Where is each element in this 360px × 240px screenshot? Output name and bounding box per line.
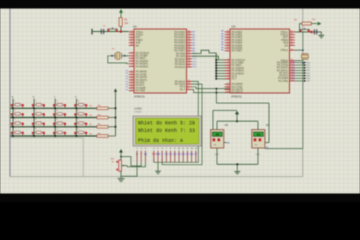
- junction keypad: [54, 107, 56, 109]
- wire U5 top pin: [216, 121, 218, 129]
- svg-text:P3: P3: [126, 84, 128, 86]
- LCD text line 2: [138, 128, 195, 134]
- svg-text:19: 19: [291, 31, 293, 33]
- svg-text:24: 24: [188, 60, 190, 62]
- wire RST net to U1: [92, 31, 129, 33]
- svg-text:D5: D5: [292, 74, 294, 76]
- junction keypad: [33, 107, 35, 109]
- svg-text:12: 12: [227, 88, 229, 90]
- svg-text:P3.7/RD: P3.7/RD: [279, 80, 289, 83]
- svg-text:26: 26: [188, 66, 190, 68]
- display U2: [254, 132, 264, 136]
- junction keypad: [54, 126, 56, 128]
- svg-text:P3: P3: [126, 79, 128, 81]
- U3 right pins: [277, 31, 295, 83]
- wire W1 chip to U2 output: [216, 102, 269, 104]
- svg-text:6: 6: [57, 110, 58, 112]
- resistor R2: [97, 107, 108, 110]
- svg-text:U1: U1: [133, 25, 137, 29]
- svg-text:G: G: [136, 153, 138, 156]
- svg-text:2: 2: [228, 61, 229, 63]
- wire RST U3: [295, 31, 322, 33]
- wire U1 pin28 down to LCD E: [162, 84, 202, 165]
- svg-text:R4: R4: [90, 115, 92, 117]
- bus stubs to U3 with junctions: [216, 59, 230, 61]
- sheet right border: [302, 9, 304, 177]
- svg-text:P3.1: P3.1: [307, 65, 311, 67]
- svg-text:35: 35: [227, 41, 229, 43]
- ground below right reset: [320, 32, 322, 35]
- svg-text:D7: D7: [292, 80, 294, 82]
- wire W2 VCC: [213, 109, 237, 111]
- svg-text:P2.4: P2.4: [193, 64, 197, 66]
- wire U1 pin27 down to LCD RS: [154, 81, 199, 162]
- svg-text:19: 19: [291, 49, 293, 51]
- junction keypad: [12, 117, 14, 119]
- svg-text:33: 33: [227, 47, 229, 49]
- svg-text:1: 1: [14, 101, 15, 103]
- wire crystal loop to XTAL2: [108, 56, 129, 64]
- svg-text:C3: C3: [103, 26, 105, 28]
- svg-text:P3.7: P3.7: [307, 81, 311, 83]
- capacitor C4 plates: [313, 29, 315, 34]
- svg-text:P3.3/INT1: P3.3/INT1: [232, 91, 244, 94]
- button U5 down: [218, 138, 221, 141]
- svg-text:21: 21: [188, 52, 190, 54]
- svg-text:10k: 10k: [98, 133, 101, 135]
- svg-text:15: 15: [131, 84, 133, 86]
- sheet left border: [9, 9, 11, 177]
- svg-text:8: 8: [188, 88, 189, 90]
- svg-text:P0.7/AD7: P0.7/AD7: [232, 50, 243, 53]
- svg-text:36: 36: [188, 39, 190, 41]
- junction keypad: [33, 117, 35, 119]
- wire U2 output to U3: [265, 148, 303, 150]
- display U5: [212, 132, 222, 136]
- keypad row wires: [10, 107, 97, 109]
- resistor R1: [119, 18, 122, 27]
- svg-text:Nhiet do Kenh 5: 28: Nhiet do Kenh 5: 28: [138, 121, 195, 127]
- svg-text:8: 8: [35, 119, 36, 121]
- svg-text:7: 7: [188, 85, 189, 87]
- svg-text:P3.7/RD: P3.7/RD: [136, 90, 146, 93]
- svg-text:7: 7: [228, 75, 229, 77]
- crystal X2: [302, 53, 309, 55]
- svg-text:P2.2: P2.2: [193, 59, 197, 61]
- svg-text:R2: R2: [90, 106, 92, 108]
- svg-text:34: 34: [227, 44, 229, 46]
- node X2 bottom: [302, 62, 304, 64]
- svg-text:P1.5/CEX2: P1.5/CEX2: [136, 65, 149, 68]
- svg-text:#: #: [57, 128, 58, 130]
- svg-text:P3: P3: [126, 73, 128, 75]
- button keypad r1c3: [53, 101, 66, 109]
- svg-text:5: 5: [228, 69, 229, 71]
- svg-text:1k: 1k: [112, 162, 114, 164]
- svg-text:33: 33: [257, 134, 261, 137]
- wire bus vertical: [215, 53, 217, 79]
- svg-text:AT89C51: AT89C51: [134, 94, 145, 98]
- svg-text:LCD1: LCD1: [135, 107, 143, 111]
- U3 left pins: [221, 30, 245, 95]
- button keypad r3c3: [53, 119, 66, 127]
- push button reset left: [107, 28, 118, 30]
- display LCD1 frame: [133, 116, 201, 146]
- wire U5 gnd: [216, 148, 218, 164]
- svg-text:10k: 10k: [98, 124, 101, 126]
- op U1 AT89C51 body: [134, 29, 187, 93]
- svg-text:P3: P3: [126, 76, 128, 78]
- ground rail sensors: [217, 163, 258, 165]
- svg-text:A0: A0: [228, 142, 230, 145]
- wiper arrow RV1: [123, 165, 128, 167]
- svg-text:P1.7: P1.7: [180, 88, 186, 91]
- svg-text:5: 5: [35, 110, 36, 112]
- junction ground rail: [236, 163, 238, 165]
- resistor R4: [97, 116, 108, 119]
- wire bottom run 2: [192, 90, 230, 93]
- schematic sheet background: [0, 9, 360, 194]
- wire U5 output stub: [224, 142, 227, 144]
- LCD pin number row: [136, 148, 197, 150]
- svg-text:P2.3: P2.3: [193, 61, 197, 63]
- svg-text:34: 34: [188, 44, 190, 46]
- wire XTAL2 right: [295, 60, 303, 62]
- svg-text:P1.7: P1.7: [232, 78, 238, 81]
- junction keypad: [75, 126, 77, 128]
- svg-text:27: 27: [188, 80, 190, 82]
- svg-text:11: 11: [131, 73, 133, 75]
- svg-text:19: 19: [131, 31, 133, 33]
- svg-text:22: 22: [188, 55, 190, 57]
- svg-text:38: 38: [227, 33, 229, 35]
- svg-text:4: 4: [14, 110, 15, 112]
- button U2 up: [254, 138, 257, 141]
- svg-text:13: 13: [131, 79, 133, 81]
- svg-text:32: 32: [188, 49, 190, 51]
- svg-text:9: 9: [132, 36, 133, 38]
- button keypad r3c4: [74, 119, 87, 127]
- button U5 up: [213, 138, 216, 141]
- resistor R3 horizontal: [302, 22, 311, 25]
- button keypad r2c1: [11, 110, 24, 118]
- svg-text:12: 12: [131, 76, 133, 78]
- selection box keypad: [10, 137, 83, 139]
- svg-text:16: 16: [131, 87, 133, 89]
- button keypad r1c1: [11, 101, 24, 109]
- power rail bar left: [91, 29, 93, 35]
- svg-text:VE: VE: [144, 153, 148, 156]
- svg-text:25: 25: [188, 63, 190, 65]
- svg-text:P3.5: P3.5: [307, 75, 311, 77]
- junction keypad: [75, 117, 77, 119]
- junction keypad: [33, 126, 35, 128]
- button keypad r3c2: [32, 119, 45, 127]
- svg-text:23: 23: [188, 58, 190, 60]
- wire second link: [192, 56, 219, 60]
- button keypad r1c4: [74, 100, 87, 109]
- svg-text:39: 39: [188, 31, 190, 33]
- button keypad r4c4: [74, 128, 87, 136]
- svg-text:18: 18: [131, 33, 133, 35]
- svg-text:38: 38: [188, 33, 190, 35]
- junction VCC rail: [115, 126, 117, 128]
- svg-text:13: 13: [227, 91, 229, 93]
- junction keypad: [54, 117, 56, 119]
- power symbol VCC right: [318, 22, 322, 26]
- svg-text:37: 37: [188, 36, 190, 38]
- svg-text:39: 39: [227, 31, 229, 33]
- U1 right pins: [174, 31, 196, 92]
- junction VCC rail: [115, 107, 117, 109]
- svg-text:0: 0: [35, 128, 36, 130]
- LCD pin stubs: [137, 151, 196, 163]
- svg-text:10: 10: [227, 83, 229, 85]
- LCD text line 1: [138, 121, 195, 127]
- capacitor C1 plates: [100, 29, 102, 34]
- svg-text:AT89C51: AT89C51: [231, 94, 242, 98]
- svg-text:10k: 10k: [98, 114, 101, 116]
- svg-text:P3: P3: [126, 87, 128, 89]
- wire pot to ground: [120, 171, 122, 178]
- junction sensors VCC: [236, 120, 238, 122]
- sheet bottom border: [10, 176, 303, 178]
- svg-text:6: 6: [228, 72, 229, 74]
- svg-text:R5: R5: [90, 124, 92, 126]
- svg-text:31: 31: [291, 44, 293, 46]
- wire vertical net right: [302, 32, 304, 50]
- ground under RW: [155, 170, 161, 172]
- wire VEE to wiper: [127, 162, 145, 167]
- junction keypad: [12, 135, 14, 137]
- wire VDD to VCC: [121, 157, 141, 166]
- svg-text:17: 17: [131, 89, 133, 91]
- svg-text:P3: P3: [126, 71, 128, 73]
- junction keypad: [33, 135, 35, 137]
- svg-text:3: 3: [132, 57, 133, 59]
- svg-text:Phim da nhan: A: Phim da nhan: A: [138, 138, 183, 144]
- svg-text:8: 8: [228, 77, 229, 79]
- svg-text:Nhiet do Kenh 7: 33: Nhiet do Kenh 7: 33: [138, 128, 195, 134]
- svg-text:33: 33: [255, 145, 257, 147]
- svg-text:P3: P3: [126, 89, 128, 91]
- svg-text:R6: R6: [90, 133, 92, 135]
- node X2 top: [302, 49, 304, 51]
- svg-text:33: 33: [188, 47, 190, 49]
- button keypad r2c2: [32, 110, 45, 118]
- svg-text:4: 4: [132, 60, 133, 62]
- resistor R6: [97, 135, 108, 138]
- svg-text:LM044L: LM044L: [135, 112, 143, 114]
- potentiometer RV1: [119, 160, 122, 171]
- wire bus to sensors vertical: [215, 89, 217, 104]
- svg-text:28: 28: [214, 145, 216, 147]
- power symbol VCC pot: [119, 149, 123, 153]
- svg-text:9: 9: [291, 36, 292, 38]
- button keypad r1c2: [32, 101, 45, 109]
- button keypad r4c1: [11, 128, 24, 136]
- junction keypad: [75, 135, 77, 137]
- svg-text:P2.5/A13: P2.5/A13: [175, 66, 186, 69]
- U3 net label wires with arrows: [295, 62, 304, 64]
- svg-text:14: 14: [131, 81, 133, 83]
- junction node RST right: [310, 31, 313, 34]
- junction node RST: [120, 30, 123, 33]
- junction VCC rail: [115, 117, 117, 119]
- svg-text:31: 31: [131, 44, 133, 46]
- power symbol VCC keypad: [114, 88, 117, 91]
- wire W1 right drop: [268, 103, 270, 143]
- svg-text:D1: D1: [292, 64, 294, 66]
- svg-text:XTAL1: XTAL1: [281, 49, 289, 52]
- resistor R5: [97, 125, 108, 128]
- wire U2 gnd: [257, 148, 259, 164]
- svg-text:P2.5: P2.5: [193, 67, 197, 69]
- LCD text line 4: [138, 138, 183, 144]
- power symbol VCC sensors: [235, 111, 239, 115]
- svg-text:P3: P3: [126, 81, 128, 83]
- svg-text:2: 2: [35, 101, 36, 103]
- svg-text:RW: RW: [156, 153, 161, 156]
- junction keypad: [12, 126, 14, 128]
- sensor U5 LM35 body: [211, 130, 224, 148]
- svg-text:3: 3: [228, 64, 229, 66]
- svg-text:30: 30: [291, 41, 293, 43]
- wire crystal left: [112, 55, 115, 57]
- svg-text:29: 29: [291, 39, 293, 41]
- wire XTAL1 right: [295, 49, 303, 51]
- svg-text:U3: U3: [232, 25, 236, 29]
- crystal X1: [114, 53, 116, 59]
- svg-text:37: 37: [227, 36, 229, 38]
- svg-text:7: 7: [14, 119, 15, 121]
- svg-text:28: 28: [188, 83, 190, 85]
- button keypad r4c3: [53, 128, 66, 136]
- svg-text:28: 28: [215, 134, 219, 137]
- power symbol VCC for R1: [119, 9, 123, 13]
- svg-text:10: 10: [131, 70, 133, 72]
- display LCD1 green screen: [136, 118, 199, 144]
- svg-text:EA: EA: [136, 44, 140, 47]
- svg-text:A1: A1: [266, 146, 268, 149]
- button keypad r2c3: [53, 110, 66, 118]
- svg-text:11: 11: [227, 86, 229, 88]
- wire U2 output link: [265, 142, 269, 144]
- button U2 down: [259, 138, 262, 141]
- wire bottom run 1: [192, 87, 230, 89]
- wire RW to ground: [157, 162, 159, 170]
- ground under pot: [118, 178, 125, 180]
- junction keypad: [12, 107, 14, 109]
- svg-text:30: 30: [131, 41, 133, 43]
- op U3 AT89C51 body: [230, 29, 290, 93]
- svg-text:35: 35: [188, 41, 190, 43]
- svg-text:10k: 10k: [98, 105, 101, 107]
- junction keypad: [54, 135, 56, 137]
- svg-text:5: 5: [132, 62, 133, 64]
- keypad column wires: [12, 99, 14, 136]
- button keypad r2c4: [74, 110, 87, 118]
- node XTAL2: [111, 55, 113, 57]
- wire W3 sensor tops: [217, 120, 258, 122]
- svg-text:9: 9: [57, 119, 58, 121]
- button keypad r3c1: [11, 119, 24, 127]
- sensor U2 LM35 body: [252, 130, 265, 148]
- svg-text:4: 4: [228, 67, 229, 69]
- wire crystal right to XTAL1: [122, 55, 129, 57]
- node XTAL1: [124, 55, 126, 57]
- svg-text:EA: EA: [285, 44, 289, 47]
- ground symbol sensors: [234, 171, 240, 173]
- button keypad r4c2: [32, 128, 45, 136]
- wire U5 left pin drop: [212, 110, 214, 129]
- push button reset right: [299, 28, 310, 30]
- U3 crystal pins: [290, 49, 295, 51]
- wire VSS to ground: [121, 162, 137, 176]
- svg-text:32: 32: [227, 49, 229, 51]
- svg-text:1: 1: [132, 52, 133, 54]
- junction keypad: [75, 107, 77, 109]
- LCD pin net labels: [136, 153, 198, 156]
- svg-text:3: 3: [57, 101, 58, 103]
- U1 left pins: [126, 31, 150, 93]
- svg-text:1: 1: [228, 59, 229, 61]
- wire U2 top pin: [257, 121, 259, 129]
- svg-text:36: 36: [227, 39, 229, 41]
- svg-text:29: 29: [131, 39, 133, 41]
- svg-text:6: 6: [132, 65, 133, 67]
- svg-text:18: 18: [291, 33, 293, 35]
- wire zigzag U1 to bus: [192, 50, 217, 53]
- VCC rail keypad: [115, 92, 117, 137]
